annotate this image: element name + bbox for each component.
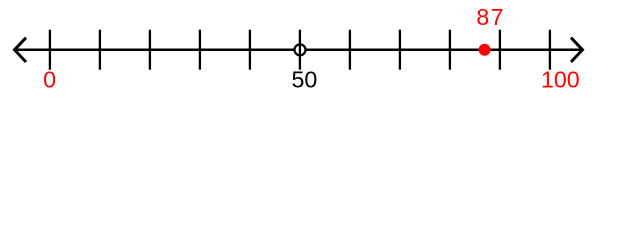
open circle at 50 [295,44,306,55]
tick 40 [249,30,251,70]
right arrowhead [571,38,583,62]
tick 0 [49,30,51,70]
tick 70 [399,30,401,70]
red point at 87 [479,44,491,56]
tick 10 [99,30,101,70]
svg-text:87: 87 [476,4,505,30]
svg-text:50: 50 [292,67,318,93]
svg-text:0: 0 [43,67,56,93]
tick 20 [149,30,151,70]
tick 30 [199,30,201,70]
tick 80 [449,30,451,70]
tick 90 [499,30,501,70]
number line axis [15,49,582,52]
tick 100 [549,30,551,70]
tick 60 [349,30,351,70]
svg-text:100: 100 [541,67,580,93]
left arrowhead [15,38,27,62]
tick 50 [299,30,301,70]
